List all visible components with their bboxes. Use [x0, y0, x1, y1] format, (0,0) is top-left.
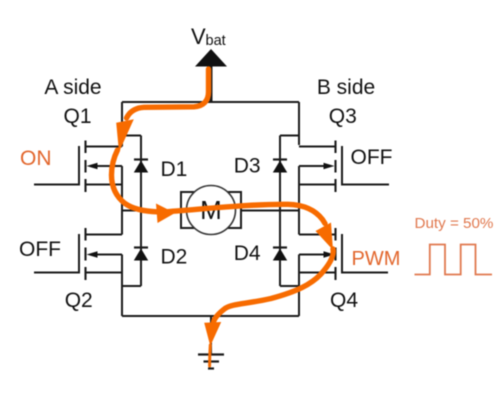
Vbat symbol: [195, 49, 227, 67]
diode D2: [122, 211, 148, 287]
svg-text:bat: bat: [206, 33, 226, 49]
motor M1: [181, 186, 241, 235]
svg-text:OFF: OFF: [19, 238, 61, 261]
svg-text:Duty = 50%: Duty = 50%: [415, 215, 494, 232]
current path through motor to B side: [163, 204, 325, 223]
svg-text:D1: D1: [161, 158, 188, 181]
diode D1: [122, 136, 148, 211]
current path tail to ground: [208, 345, 212, 366]
svg-text:Q3: Q3: [329, 105, 357, 128]
wire left rail middle (node A): [121, 166, 123, 235]
svg-text:Q4: Q4: [330, 289, 358, 312]
current arrow into Q4: [316, 223, 334, 251]
wire right rail upper: [298, 102, 300, 145]
transistor Q1: [34, 141, 122, 193]
svg-text:PWM: PWM: [352, 248, 401, 270]
svg-text:ON: ON: [20, 147, 52, 170]
transistor Q2: [34, 228, 122, 280]
svg-text:Q2: Q2: [65, 289, 93, 312]
svg-text:OFF: OFF: [351, 146, 393, 169]
wire motor left: [122, 210, 181, 212]
current arrow to ground: [204, 322, 221, 346]
svg-text:D4: D4: [234, 242, 261, 265]
current arrow toward motor: [156, 204, 175, 224]
svg-text:B side: B side: [317, 76, 375, 99]
svg-text:D2: D2: [161, 246, 188, 269]
current path along Q1 down to motor: [112, 150, 158, 212]
wire motor right: [241, 210, 299, 212]
wire left rail upper: [121, 102, 123, 147]
svg-text:Q1: Q1: [63, 105, 91, 128]
current path loop into Q4 and to ground: [214, 249, 334, 322]
current path from Vbat to Q1: [112, 69, 334, 366]
transistor Q3: [299, 141, 389, 193]
svg-text:V: V: [191, 24, 206, 49]
svg-text:D3: D3: [234, 155, 261, 178]
PWM waveform: [415, 245, 493, 275]
diode D3: [273, 136, 299, 211]
wire right rail middle (node B): [298, 166, 300, 235]
diode D4: [273, 211, 299, 287]
wire ground stem: [210, 316, 212, 354]
wire right rail lower: [298, 255, 300, 317]
wire bottom rail: [122, 315, 299, 317]
current arrow into Q1: [116, 119, 134, 152]
svg-text:A side: A side: [44, 76, 101, 99]
wire left rail lower: [121, 255, 123, 317]
ground: [198, 355, 224, 369]
wire Vbat stem: [210, 66, 213, 102]
wire top rail: [122, 101, 299, 103]
transistor Q4: [299, 228, 388, 280]
